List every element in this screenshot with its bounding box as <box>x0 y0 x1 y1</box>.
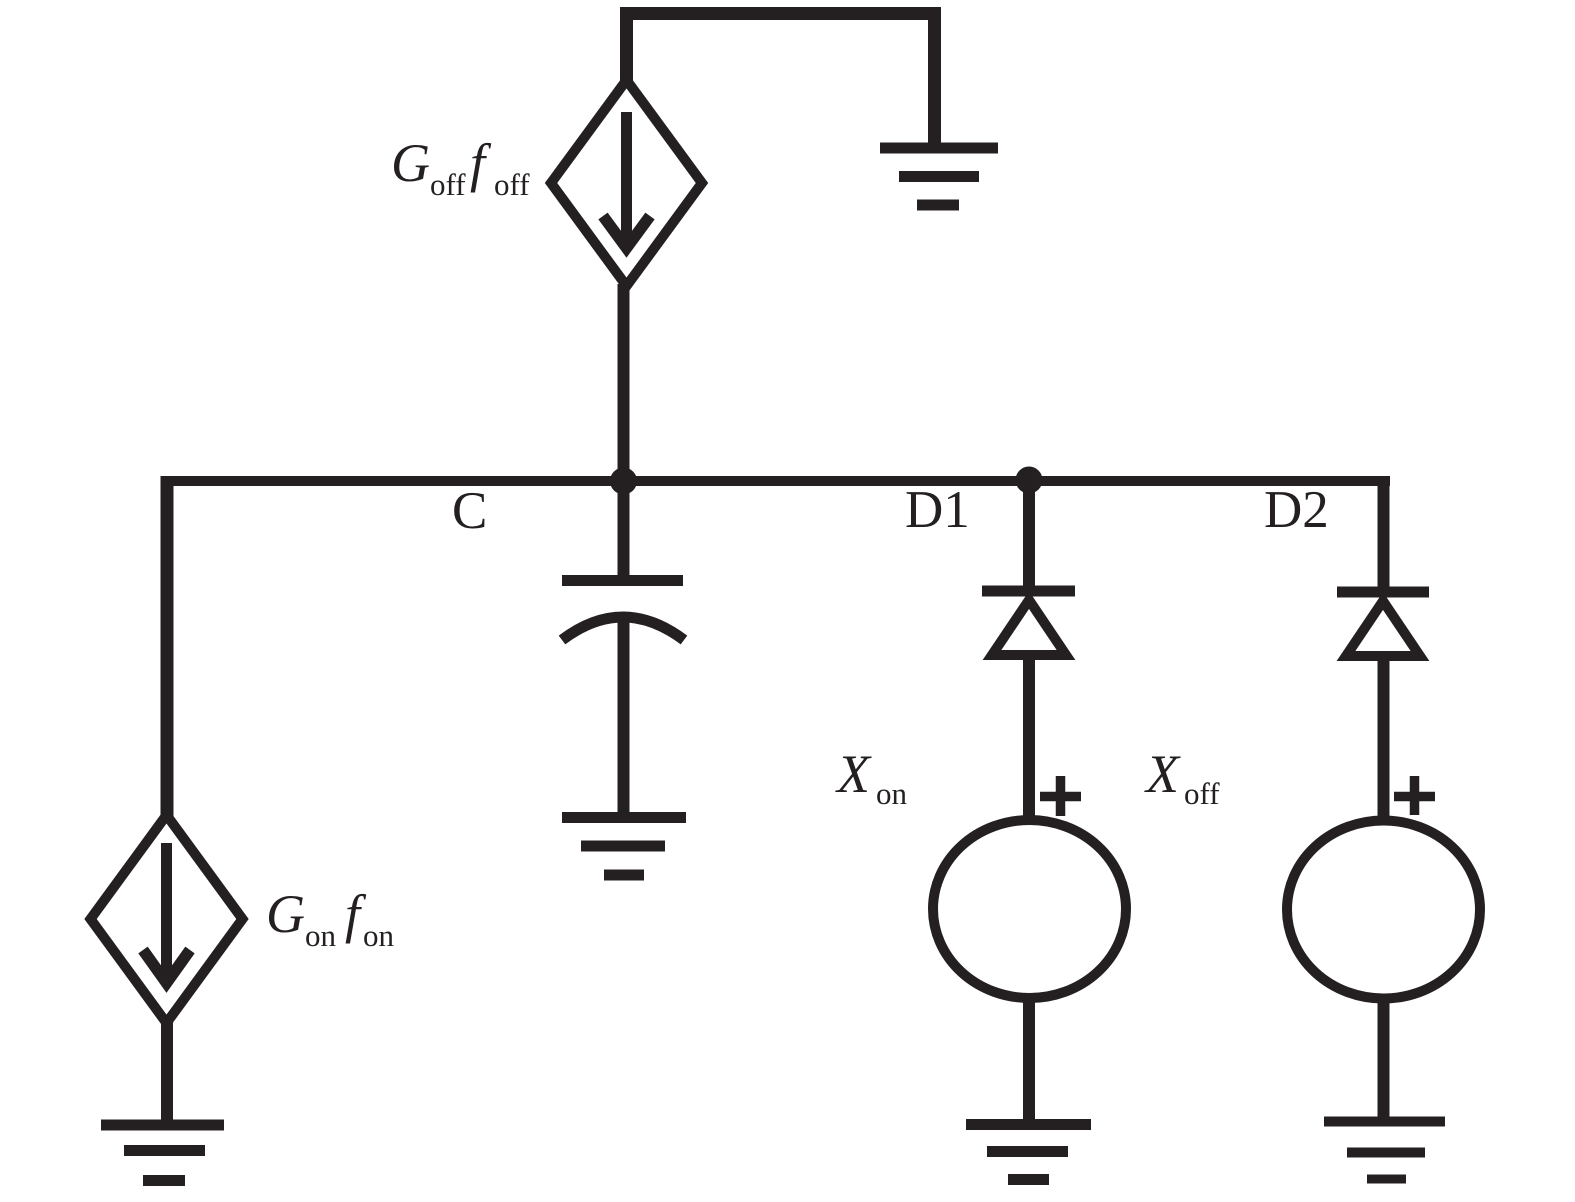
wire top horizontal <box>620 7 941 20</box>
capacitor C bottom curved plate <box>562 617 684 640</box>
label G_on f_on <box>266 884 395 953</box>
arrow inside G_on source <box>161 843 172 979</box>
wire diode D2 to source X_off <box>1378 657 1390 818</box>
node label C <box>452 482 487 540</box>
svg-text:D1: D1 <box>905 481 970 539</box>
diode D2 triangle <box>1346 601 1420 656</box>
main horizontal bus wire <box>162 476 1391 486</box>
ground (below capacitor) <box>562 812 686 823</box>
label G_off f_off <box>391 133 530 202</box>
wire top-left vertical drop to G_off source <box>620 7 633 82</box>
ground (below G_on) <box>101 1120 224 1131</box>
plus sign at X_off <box>1410 776 1420 815</box>
dependent current source G_on (diamond) <box>91 815 243 1023</box>
junction node dot at C <box>610 468 637 495</box>
wire bus left end down to G_on source <box>161 476 174 816</box>
wire diode D1 to source X_on <box>1023 656 1035 818</box>
arrow inside G_off source <box>621 112 632 244</box>
node label D1 <box>905 481 970 539</box>
svg-text:on: on <box>876 776 908 811</box>
node label D2 <box>1264 481 1329 539</box>
ground (top right) <box>880 143 998 154</box>
svg-text:X: X <box>1144 744 1181 804</box>
capacitor C top plate <box>562 575 683 586</box>
diode D1 cathode bar <box>982 586 1075 597</box>
label X_on <box>835 744 908 811</box>
wire bus right end down to diode D2 <box>1378 476 1390 590</box>
wire X_on source to ground <box>1023 997 1035 1127</box>
wire node D1 down to diode D1 <box>1023 480 1035 590</box>
dependent current source G_off (diamond) <box>551 80 702 286</box>
diode D1 triangle <box>992 600 1066 655</box>
label X_off <box>1144 744 1220 811</box>
svg-text:off: off <box>430 167 466 202</box>
wire G_on source to ground <box>161 1021 173 1122</box>
wire node C down to capacitor <box>618 481 630 577</box>
voltage source X_off (circle) <box>1287 821 1480 999</box>
voltage source X_on (circle) <box>933 820 1126 998</box>
svg-text:G: G <box>266 884 305 944</box>
svg-text:on: on <box>363 918 395 953</box>
ground (below X_off) <box>1324 1117 1445 1127</box>
wire top-right vertical drop to ground <box>928 7 941 145</box>
wire from G_off source down to node C <box>618 284 630 481</box>
diode D2 cathode bar <box>1337 587 1429 598</box>
junction node dot at D1 <box>1016 467 1043 494</box>
svg-text:off: off <box>494 167 530 202</box>
wire capacitor to ground <box>618 616 630 818</box>
ground (below X_on) <box>966 1119 1091 1130</box>
svg-text:C: C <box>452 482 487 540</box>
svg-text:G: G <box>391 133 430 193</box>
svg-text:off: off <box>1184 776 1220 811</box>
svg-text:D2: D2 <box>1264 481 1329 539</box>
plus sign at X_on <box>1056 776 1066 816</box>
svg-text:on: on <box>305 918 337 953</box>
wire X_off source to ground <box>1378 997 1390 1124</box>
svg-text:X: X <box>835 744 872 804</box>
